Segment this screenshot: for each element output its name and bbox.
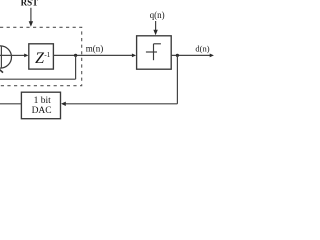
quantizer transfer-curve symbol xyxy=(146,44,161,60)
summing junction (adder) xyxy=(0,46,12,68)
DAC feedback arrowhead into adder xyxy=(0,70,3,73)
wire: adder output to delay block, with arrow xyxy=(12,54,29,58)
svg-text:m(n): m(n) xyxy=(86,43,104,53)
wire: feedback drop from tap node xyxy=(75,55,77,79)
delay block Z^-1 xyxy=(29,44,54,69)
DAC block: 1 bit DAC xyxy=(21,92,60,119)
RST reset arrow xyxy=(29,8,33,27)
svg-text:d(n): d(n) xyxy=(195,43,209,53)
wire: quantizer output d(n), arrow at right edge xyxy=(171,54,214,58)
wire: delay output m(n) to quantizer, with arrow xyxy=(53,54,136,58)
dashed box: resettable integrator boundary xyxy=(0,27,82,85)
comparator / 1-bit quantizer block xyxy=(137,36,172,69)
wire: DAC output toward adder (cut at left edge) xyxy=(0,103,21,105)
svg-text:-1: -1 xyxy=(44,50,50,59)
svg-text:1 bit: 1 bit xyxy=(34,96,52,106)
svg-text:RST: RST xyxy=(21,0,39,8)
svg-text:q(n): q(n) xyxy=(150,10,165,20)
quantizer dither input arrow q(n) xyxy=(153,21,157,35)
wire: feedback drop from d(n) node xyxy=(176,55,178,103)
wire: feedback run to DAC, with arrow xyxy=(61,102,177,106)
node: integrator feedback tap on m(n) wire xyxy=(74,54,77,57)
wire: integrator feedback return to adder xyxy=(0,78,76,80)
node: output feedback tap on d(n) wire xyxy=(176,54,179,57)
svg-text:DAC: DAC xyxy=(32,106,52,116)
